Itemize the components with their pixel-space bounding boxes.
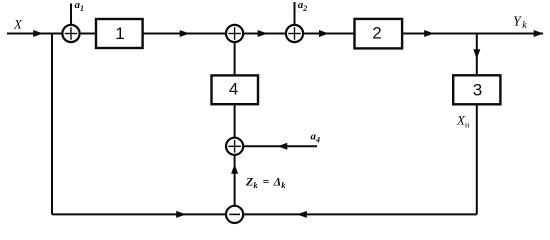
wire: S3 to block 2 — [303, 33, 354, 35]
summing junction S5 minus — [226, 206, 243, 223]
summing junction S3 — [286, 25, 303, 42]
arrowhead into block 3 — [473, 49, 480, 59]
wire: S1 to block 1 — [80, 33, 96, 35]
svg-text:Yk: Yk — [513, 14, 527, 31]
wire: S2 to S3 — [243, 33, 286, 35]
svg-text:a4: a4 — [311, 130, 321, 144]
wire: block 2 to output Yk — [402, 33, 543, 35]
svg-text:4: 4 — [229, 80, 238, 99]
wire: block 4 down to S4 — [234, 104, 236, 138]
block 3 — [453, 75, 500, 104]
arrowhead into S2 — [180, 30, 190, 37]
block 1 — [96, 19, 143, 48]
wire: S2 down to block 4 — [234, 42, 236, 75]
arrowhead after block 2 — [424, 30, 434, 37]
summing junction S4 — [226, 138, 243, 155]
wire: a1 input vertical — [70, 4, 72, 25]
wire: block 3 down to bottom corner — [476, 104, 478, 214]
arrowhead into block 2 — [319, 30, 329, 37]
wire: S5 up to S4 — [234, 155, 236, 206]
wire: X input segment — [7, 33, 62, 35]
wire: branch down from X to feedback — [51, 34, 53, 215]
arrowhead into S5 from left — [176, 211, 186, 218]
svg-text:Xн: Xн — [456, 113, 470, 130]
svg-text:1: 1 — [115, 24, 124, 43]
block 2 — [355, 19, 403, 49]
svg-text:3: 3 — [473, 81, 482, 100]
arrowhead into S5 from right — [297, 211, 307, 218]
arrowhead output Yk — [534, 30, 544, 37]
wire: feedback bottom left into S5 — [52, 213, 226, 215]
block 4 — [212, 75, 259, 104]
wire: block 1 to S2 — [143, 33, 226, 35]
arrowhead into S3 — [258, 30, 268, 37]
summing junction S1 — [62, 25, 79, 42]
svg-text:X: X — [13, 17, 23, 32]
svg-text:a2: a2 — [298, 0, 308, 13]
wire: a4 input horizontal — [243, 145, 317, 147]
svg-text:2: 2 — [372, 24, 381, 43]
wire: bottom right into S5 — [243, 213, 477, 215]
svg-text:Zk=Δk: Zk=Δk — [245, 174, 286, 190]
wire: a2 input vertical — [294, 2, 296, 25]
wire: branch down to block 3 — [476, 34, 478, 76]
arrowhead on X input — [33, 30, 43, 37]
summing junction S2 — [226, 25, 243, 42]
arrowhead a4 into S4 — [278, 143, 288, 150]
arrowhead up into S4 — [231, 164, 238, 174]
svg-text:a1: a1 — [75, 0, 85, 13]
